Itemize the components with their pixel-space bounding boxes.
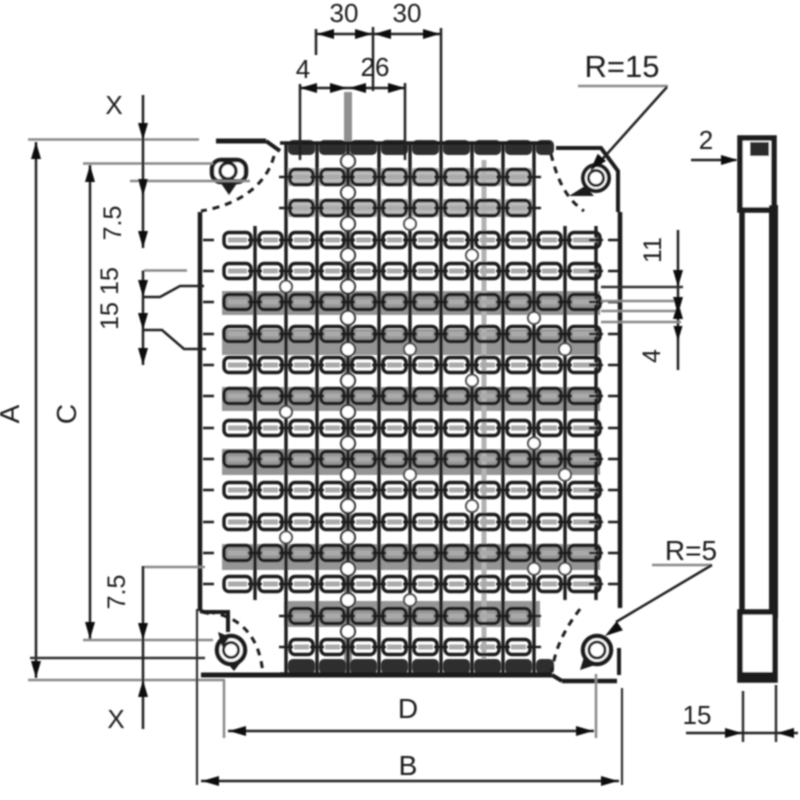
zigzag jog line lower: [143, 330, 206, 349]
bottom-right dashed arc: [552, 609, 580, 672]
row center dashes: [203, 177, 619, 647]
dimension 15 line: [686, 732, 798, 735]
svg-text:C: C: [51, 404, 82, 424]
R=15 leader arrow: [590, 154, 606, 171]
bottom 7.5 reference line: [144, 566, 205, 569]
plate top edge: [280, 141, 551, 145]
side view top fold patch: [750, 142, 769, 156]
dimension 2 arrow: [721, 155, 738, 165]
top-left corner keyhole: [212, 160, 246, 195]
R=5 leader arrow: [605, 621, 623, 636]
bottom-left corner keyhole: [217, 632, 245, 671]
11-4 dark reference line: [601, 286, 683, 289]
svg-text:2: 2: [699, 125, 713, 155]
bottom-right corner keyhole: [580, 636, 611, 670]
side view bottom fold patch: [742, 672, 774, 680]
svg-text:4: 4: [638, 349, 666, 363]
dimension C line: [89, 165, 92, 639]
svg-text:7.5: 7.5: [99, 206, 127, 241]
dimension C arrows: [85, 165, 95, 182]
plate left edge: [198, 212, 203, 611]
svg-text:R=5: R=5: [665, 535, 717, 566]
dimension 4-26 arrows: [300, 83, 317, 93]
side view bottom box: [740, 612, 775, 680]
dimension 15-15 line: [142, 271, 145, 366]
dimension 4-26 line: [299, 87, 406, 90]
11-4 gray reference line 1: [601, 300, 681, 303]
perforation slot rows: [224, 170, 600, 655]
11-4 gray reference line 2: [601, 310, 681, 313]
secondary vertical gray column: [482, 160, 487, 676]
R=5 underline: [652, 564, 712, 567]
4-26 extension line left: [299, 84, 302, 160]
top edge extension line: [28, 138, 199, 141]
svg-text:X: X: [105, 90, 122, 120]
plate right edge: [618, 212, 623, 608]
dimension 30-30 arrows: [317, 29, 334, 39]
plate left edge hook: [200, 611, 209, 613]
gray hatched band rows: [222, 168, 600, 627]
svg-text:B: B: [399, 750, 418, 781]
30-30 extension line right: [440, 28, 443, 160]
plate bottom right step: [552, 675, 562, 681]
dimension 2 line: [691, 159, 736, 162]
grid white circles: [280, 154, 571, 638]
side view top box: [740, 138, 774, 210]
dimension 7.5-X bottom arrows: [138, 623, 148, 640]
top dark slot row: [288, 140, 554, 155]
bottom-left dashed arc: [208, 612, 263, 675]
dimension 7.5 top arrows: [138, 179, 148, 196]
bottom edge extension line: [28, 679, 225, 682]
svg-text:30: 30: [330, 0, 359, 28]
plate bottom edge main: [201, 673, 552, 678]
bottom dark slot row: [288, 659, 554, 674]
C top extension line: [83, 162, 213, 165]
C bottom extension line: [83, 639, 213, 642]
30-30 extension line left: [315, 29, 318, 55]
top-right dashed arc: [551, 154, 584, 211]
svg-text:15: 15: [96, 267, 124, 295]
svg-text:11: 11: [639, 237, 667, 263]
svg-text:15: 15: [683, 700, 712, 730]
dimension 30-30 line: [316, 33, 441, 36]
11-4 gray reference line 3: [601, 321, 681, 324]
top-right corner ear outline: [556, 148, 618, 212]
bottom keyhole reference line: [30, 657, 205, 660]
svg-text:A: A: [0, 404, 25, 423]
vertical grid lines: [255, 143, 596, 676]
4-26 extension line right: [404, 83, 407, 160]
30-30 extension line mid: [372, 27, 375, 91]
plate bottom right strip: [562, 679, 617, 684]
dimension 7.5 top line: [142, 164, 145, 249]
D extension line right: [595, 674, 598, 738]
dimension 7.5-X bottom line: [142, 566, 145, 729]
zigzag jog line upper: [143, 286, 204, 297]
dimension B line: [201, 780, 619, 783]
dimension D line: [228, 730, 594, 733]
B extension line left: [196, 609, 198, 785]
R=5 leader line: [616, 565, 712, 622]
svg-text:26: 26: [361, 52, 390, 82]
top-left dashed arc: [201, 156, 274, 211]
svg-text:30: 30: [393, 0, 422, 28]
dimension X top arrow: [138, 123, 148, 140]
plate top edge corner strip: [216, 139, 266, 144]
R=15 leader line: [598, 87, 667, 164]
dimension 15-15 arrows: [138, 280, 148, 297]
B extension line right: [621, 688, 623, 785]
plate right edge lower piece: [617, 648, 621, 675]
svg-text:D: D: [398, 693, 418, 724]
15 extension line left: [742, 691, 745, 742]
side view right face line: [769, 205, 778, 618]
15 extension line right: [775, 685, 778, 742]
dimension D arrows: [229, 726, 246, 736]
11-4 arrows: [673, 270, 683, 287]
R=15 underline: [578, 85, 668, 88]
dimension 15 arrows: [725, 728, 742, 738]
svg-text:X: X: [107, 704, 124, 734]
svg-text:7.5: 7.5: [103, 575, 131, 610]
keyhole lower reference line: [130, 180, 250, 183]
top-right corner keyhole: [569, 165, 609, 196]
bottom-left corner step outline: [203, 612, 228, 632]
svg-text:15: 15: [96, 302, 124, 330]
11-4 dimension line: [677, 230, 680, 370]
svg-text:R=15: R=15: [585, 49, 660, 84]
dimension A arrows: [31, 142, 41, 159]
plate top edge step: [266, 141, 280, 151]
D extension line left: [223, 680, 226, 738]
dimension B arrows: [202, 776, 219, 786]
center vertical gray column: [344, 92, 352, 676]
side view left face line: [739, 211, 745, 613]
svg-text:4: 4: [296, 54, 310, 84]
dimension X top line: [142, 95, 145, 164]
dimension A line: [35, 142, 38, 678]
plate bottom edge: [280, 672, 551, 676]
15 reference line: [144, 269, 187, 272]
